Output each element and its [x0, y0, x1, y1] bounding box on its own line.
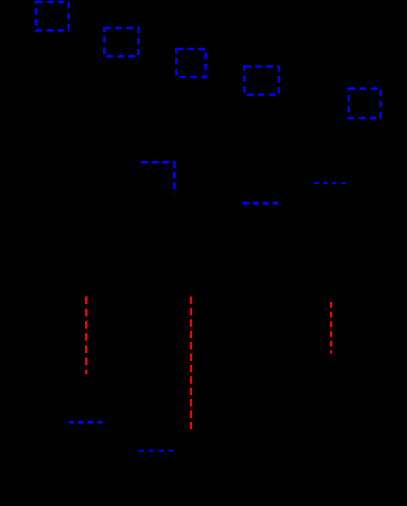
- lifeline L1 (dashed red): [85, 297, 87, 375]
- node box B2 (dashed blue): [104, 28, 138, 56]
- lifeline L2 (dashed red): [190, 297, 192, 430]
- thin dashed line E2 (blue): [314, 182, 346, 184]
- dashed segment E4 (blue, bottom left): [69, 421, 103, 424]
- elbow connector E1 (dashed blue): [141, 162, 174, 193]
- dashed line E3 (blue, left arrow tip): [244, 202, 279, 205]
- lifeline L3 (dashed red): [330, 302, 332, 354]
- node box B3 (dashed blue): [176, 49, 205, 77]
- node box B4 (dashed blue): [244, 67, 279, 95]
- dashed segment E5 (blue, bottom middle): [139, 450, 174, 452]
- node box B1 (dashed blue): [36, 2, 69, 31]
- node box B5 (dashed blue): [349, 89, 381, 119]
